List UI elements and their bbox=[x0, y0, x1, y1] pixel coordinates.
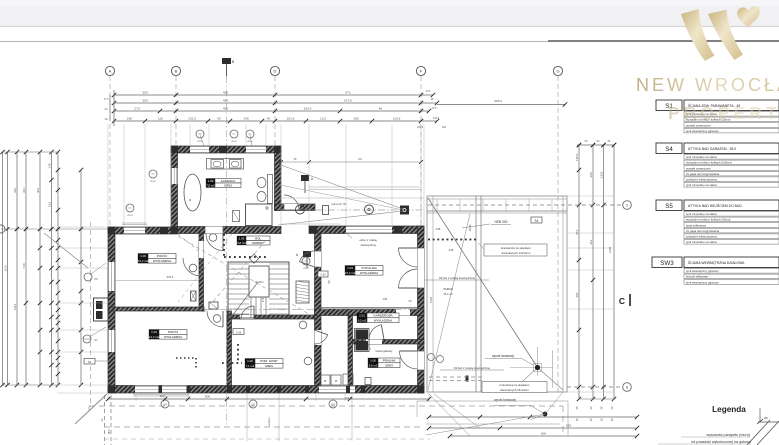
svg-text:148: 148 bbox=[47, 163, 51, 168]
radiator row bottom bbox=[320, 375, 330, 385]
svg-text:140: 140 bbox=[243, 117, 248, 121]
svg-text:GARDEROBA: GARDEROBA bbox=[373, 314, 392, 318]
svg-text:1.04: 1.04 bbox=[347, 266, 353, 270]
basin 1 bbox=[211, 160, 224, 169]
bottom dashed overhang bbox=[89, 405, 563, 407]
top dim chain 1 bbox=[114, 94, 433, 96]
door gap gosp bbox=[240, 315, 254, 319]
logo W stroke 1 bbox=[681, 9, 715, 61]
window left 2 bbox=[108, 330, 115, 352]
svg-text:tynk mineralny na siatce: tynk mineralny na siatce bbox=[686, 183, 717, 187]
svg-text:80: 80 bbox=[764, 416, 768, 420]
svg-text:tynk wewnętrzny gipsowy: tynk wewnętrzny gipsowy bbox=[686, 280, 719, 284]
svg-text:12,3 m2: 12,3 m2 bbox=[149, 335, 160, 339]
svg-text:okno z roletą: okno z roletą bbox=[359, 238, 377, 242]
door arc room106 bbox=[183, 258, 201, 276]
svg-text:300: 300 bbox=[142, 99, 147, 103]
svg-text:180: 180 bbox=[127, 117, 132, 121]
svg-text:HOL: HOL bbox=[255, 236, 262, 240]
apron outline bbox=[417, 400, 568, 402]
svg-text:WYKŁADZINA: WYKŁADZINA bbox=[164, 335, 182, 339]
door arc room103 bbox=[207, 311, 223, 327]
svg-text:1.01: 1.01 bbox=[359, 314, 365, 318]
svg-text:TARAS: TARAS bbox=[443, 287, 453, 291]
wall exterior left bbox=[108, 227, 115, 393]
svg-text:drewnianych 14x14cm: drewnianych 14x14cm bbox=[502, 251, 531, 255]
svg-text:635: 635 bbox=[566, 424, 571, 428]
wall exterior bottom bbox=[108, 386, 424, 394]
grid bubbles A B D F G bbox=[105, 66, 114, 75]
svg-text:17.5: 17.5 bbox=[426, 90, 431, 93]
svg-text:D: D bbox=[274, 69, 277, 74]
witness lines bottom bbox=[135, 393, 137, 401]
svg-text:Legenda: Legenda bbox=[712, 405, 746, 414]
svg-text:2x papa termozgrzewalna: 2x papa termozgrzewalna bbox=[686, 229, 719, 233]
room label 1.04 SYPIALNIA bbox=[345, 266, 355, 271]
vent leaders bbox=[200, 135, 204, 146]
door gap hall-right-2 bbox=[315, 330, 322, 345]
room label 1.02 POM GOSP bbox=[245, 359, 255, 364]
svg-text:krotownica ze słupkiem: krotownica ze słupkiem bbox=[500, 383, 530, 387]
wall interior hall-left bbox=[199, 233, 204, 311]
svg-text:S1: S1 bbox=[88, 360, 92, 364]
svg-text:kocioł gazowy: kocioł gazowy bbox=[376, 349, 393, 353]
svg-text:SW3: SW3 bbox=[660, 260, 674, 267]
svg-text:238: 238 bbox=[436, 227, 441, 231]
svg-text:40: 40 bbox=[267, 117, 271, 121]
wall interior rooms divider bbox=[108, 307, 204, 311]
grid bubble 2 bbox=[428, 204, 622, 206]
bathtub bbox=[184, 174, 201, 211]
wall interior gosp-left bbox=[227, 311, 232, 386]
svg-text:460: 460 bbox=[223, 99, 228, 103]
toilet bbox=[257, 178, 266, 188]
section marker A1 bbox=[301, 175, 309, 181]
terrace diagonal bbox=[428, 198, 538, 368]
svg-text:GRES: GRES bbox=[224, 183, 232, 187]
section marker B1 bbox=[222, 58, 231, 64]
svg-text:S4: S4 bbox=[665, 146, 673, 153]
left dim chains bbox=[2, 152, 4, 385]
wall interior right section divider bbox=[315, 309, 425, 316]
door arc garderoba bbox=[369, 325, 381, 339]
svg-text:238: 238 bbox=[449, 248, 454, 252]
door arc pralnia terrace bbox=[400, 351, 418, 369]
svg-text:6: 6 bbox=[626, 386, 628, 390]
svg-text:143.5: 143.5 bbox=[433, 117, 440, 120]
svg-text:PRALNIA: PRALNIA bbox=[383, 359, 396, 363]
vent circles bbox=[126, 204, 134, 212]
witness lines top bbox=[123, 124, 125, 226]
svg-text:Ø160: Ø160 bbox=[231, 141, 237, 143]
wall corner blocks bathroom bbox=[171, 146, 178, 153]
door arc terrace upper bbox=[399, 248, 418, 267]
window bottom 1 bbox=[135, 386, 187, 394]
svg-text:45x45: 45x45 bbox=[468, 224, 472, 232]
svg-text:303: 303 bbox=[575, 230, 579, 235]
svg-text:871: 871 bbox=[345, 91, 350, 95]
porch column 2 bbox=[365, 205, 374, 214]
top dim chain 4 bbox=[114, 120, 437, 122]
window circle left2 bbox=[84, 273, 92, 281]
grid axis B dashed bbox=[175, 76, 177, 148]
door gap bathroom bbox=[205, 227, 223, 234]
svg-text:PROPERTY R: PROPERTY R bbox=[668, 103, 779, 123]
window top-right bbox=[346, 226, 392, 234]
svg-text:1.09: 1.09 bbox=[208, 179, 214, 183]
s1 small box bottom bbox=[233, 329, 244, 335]
svg-text:1.02: 1.02 bbox=[247, 359, 253, 363]
witness lines left bbox=[57, 226, 108, 228]
c03 box bbox=[318, 271, 328, 277]
svg-text:tynk mineralny na siatce: tynk mineralny na siatce bbox=[686, 240, 717, 244]
terrace truss verticals bbox=[475, 196, 477, 392]
dim line bath-F bbox=[281, 161, 421, 163]
svg-text:1.05: 1.05 bbox=[239, 236, 245, 240]
radiator wall box bbox=[191, 291, 197, 301]
svg-text:ŁAZIENKA: ŁAZIENKA bbox=[221, 179, 236, 183]
svg-text:ATTYKA NAD GARAŻEM - 55.0: ATTYKA NAD GARAŻEM - 55.0 bbox=[688, 146, 736, 151]
legend S1 bbox=[656, 100, 682, 111]
door arc bathroom bbox=[206, 234, 223, 251]
svg-text:60: 60 bbox=[217, 117, 221, 121]
svg-text:17x18,2: 17x18,2 bbox=[254, 280, 264, 284]
door gap hall-left bbox=[199, 241, 204, 258]
svg-text:362: 362 bbox=[13, 188, 17, 193]
svg-text:278: 278 bbox=[261, 297, 265, 302]
svg-text:7,1 m2: 7,1 m2 bbox=[246, 364, 255, 368]
legend S5 bbox=[656, 200, 682, 211]
svg-text:12.5: 12.5 bbox=[320, 117, 326, 121]
svg-text:2: 2 bbox=[626, 204, 628, 208]
svg-text:46: 46 bbox=[379, 107, 383, 111]
svg-text:126.5: 126.5 bbox=[393, 117, 401, 121]
svg-text:7,8 m2: 7,8 m2 bbox=[206, 183, 215, 187]
window bathroom left bbox=[171, 168, 178, 184]
wall corner blocks main top bbox=[108, 227, 115, 234]
window top-left bbox=[124, 227, 145, 234]
svg-text:POM. GOSP.: POM. GOSP. bbox=[260, 359, 278, 363]
sill top-left bbox=[122, 224, 147, 226]
svg-text:1.00: 1.00 bbox=[370, 359, 376, 363]
terrace outline bbox=[427, 196, 567, 392]
sheet border line bbox=[0, 41, 548, 43]
wall bathroom top bbox=[171, 146, 281, 153]
legend S4 bbox=[656, 143, 682, 154]
svg-text:148.5: 148.5 bbox=[575, 153, 579, 161]
svg-text:C-03: C-03 bbox=[236, 331, 242, 334]
svg-text:GRES: GRES bbox=[385, 363, 393, 367]
svg-text:zewnętrzną: zewnętrzną bbox=[360, 243, 376, 247]
svg-text:343: 343 bbox=[589, 240, 593, 245]
svg-text:112: 112 bbox=[358, 158, 363, 161]
section dashdot line bbox=[118, 309, 420, 311]
svg-text:110: 110 bbox=[158, 117, 163, 121]
kratownica label 2 bbox=[482, 382, 547, 393]
room label 1.03 POKOJ bbox=[149, 330, 159, 335]
door gap right divider bbox=[396, 309, 410, 316]
section double line bbox=[309, 186, 421, 188]
svg-text:tynk wewnętrzny gipsowy: tynk wewnętrzny gipsowy bbox=[686, 269, 719, 273]
wall bathroom bottom bbox=[171, 227, 281, 234]
wall corner blocks bottom bbox=[108, 386, 115, 393]
svg-text:6,2 m2: 6,2 m2 bbox=[358, 318, 367, 322]
wall bathroom left bbox=[171, 146, 178, 234]
terrace dotted row bbox=[428, 239, 477, 241]
svg-text:Ø160: Ø160 bbox=[247, 141, 253, 143]
svg-text:363: 363 bbox=[22, 188, 26, 193]
svg-text:C: C bbox=[619, 296, 625, 306]
svg-text:126.5: 126.5 bbox=[417, 126, 424, 129]
svg-text:1.06: 1.06 bbox=[140, 254, 146, 258]
hall dashed diagonal bbox=[178, 236, 312, 316]
svg-text:PARKIET: PARKIET bbox=[252, 241, 264, 245]
svg-text:WYKŁADZINA: WYKŁADZINA bbox=[360, 271, 378, 275]
pralnia fixture bbox=[365, 378, 371, 385]
svg-text:5,8 m2: 5,8 m2 bbox=[369, 363, 378, 367]
bottom sill lines bbox=[133, 394, 189, 396]
window bathroom top 2 bbox=[246, 146, 266, 153]
svg-text:pustaki ceramiczne: pustaki ceramiczne bbox=[686, 166, 711, 170]
wall entrance recess bbox=[275, 204, 316, 211]
svg-text:S5: S5 bbox=[665, 203, 673, 210]
svg-text:styropian na kleju i kołkach (: styropian na kleju i kołkach (20cm) bbox=[686, 218, 730, 222]
svg-text:9,8 m2: 9,8 m2 bbox=[237, 241, 246, 245]
porch roof diagonals bbox=[278, 164, 403, 209]
svg-text:928.5: 928.5 bbox=[494, 99, 502, 103]
terrace bottom dashes bbox=[429, 376, 482, 378]
section line B vertical bbox=[226, 76, 228, 425]
svg-text:POKÓJ: POKÓJ bbox=[157, 253, 168, 258]
svg-text:WYKŁADZINA: WYKŁADZINA bbox=[153, 259, 171, 263]
door arc terrace lower bbox=[399, 269, 418, 288]
svg-text:wpust tarasowy: wpust tarasowy bbox=[492, 354, 514, 358]
svg-text:12.5: 12.5 bbox=[432, 107, 437, 110]
svg-text:wpust tarasowy: wpust tarasowy bbox=[494, 398, 516, 402]
svg-text:164.5: 164.5 bbox=[304, 107, 312, 111]
svg-text:S4: S4 bbox=[535, 219, 539, 223]
svg-text:303: 303 bbox=[36, 188, 40, 193]
grid axis chimney dashed bbox=[90, 222, 92, 407]
svg-text:pustaki ceramiczne: pustaki ceramiczne bbox=[686, 123, 711, 127]
door gap entrance bbox=[284, 204, 300, 211]
svg-text:1.03: 1.03 bbox=[151, 330, 157, 334]
svg-text:bloczki silikatowe: bloczki silikatowe bbox=[686, 275, 709, 279]
door gap hall-right-1 bbox=[315, 251, 322, 267]
svg-text:525.5: 525.5 bbox=[167, 275, 174, 279]
svg-text:450: 450 bbox=[223, 91, 228, 95]
radiator wall box 2 bbox=[209, 302, 218, 309]
bottom dim right 2 bbox=[429, 427, 637, 429]
left chain inner bbox=[80, 170, 82, 385]
svg-text:730: 730 bbox=[22, 263, 26, 268]
door arc sypialnia bbox=[300, 251, 315, 262]
svg-text:tynk wewnętrzny gipsowy: tynk wewnętrzny gipsowy bbox=[686, 129, 719, 133]
top chain left riser bbox=[113, 90, 115, 126]
svg-text:673.5: 673.5 bbox=[344, 99, 352, 103]
svg-text:Drzwi z roletą zewnętrzną: Drzwi z roletą zewnętrzną bbox=[454, 366, 490, 370]
window left 1 bbox=[108, 262, 115, 291]
room label 1.05 HOL bbox=[237, 236, 246, 241]
svg-text:wysokość parapetu (muru): wysokość parapetu (muru) bbox=[707, 433, 750, 437]
svg-text:polistyren ekstrudowany: polistyren ekstrudowany bbox=[686, 235, 718, 239]
door arc entrance bbox=[284, 195, 299, 210]
window circle left bbox=[83, 335, 91, 343]
svg-text:192: 192 bbox=[47, 202, 51, 207]
svg-text:18.5: 18.5 bbox=[107, 429, 111, 435]
pralnia terrace door gap bbox=[418, 351, 425, 370]
svg-text:184: 184 bbox=[383, 297, 388, 301]
wall exterior top-right bbox=[309, 226, 424, 234]
svg-text:600: 600 bbox=[160, 394, 165, 398]
legend SW3 bbox=[652, 257, 682, 268]
svg-text:SYPIALNIA: SYPIALNIA bbox=[361, 266, 377, 270]
legenda diagram bbox=[747, 420, 770, 445]
dotted kitchen corner bbox=[223, 234, 225, 257]
right dim chains bbox=[578, 145, 580, 399]
kratownica label 1 bbox=[484, 244, 547, 256]
svg-text:WYKŁADZINA: WYKŁADZINA bbox=[374, 318, 392, 322]
svg-text:160: 160 bbox=[353, 117, 358, 121]
svg-text:15,2 m2: 15,2 m2 bbox=[345, 271, 356, 275]
s4 small box bbox=[531, 217, 542, 223]
svg-text:NEW WROCŁAW: NEW WROCŁAW bbox=[636, 75, 779, 95]
window bathroom top 1 bbox=[190, 146, 209, 153]
shower bbox=[246, 204, 273, 226]
wardrobe line sypialnia bbox=[321, 307, 418, 309]
svg-text:HEB 300: HEB 300 bbox=[495, 220, 508, 224]
svg-text:G: G bbox=[556, 69, 559, 74]
svg-text:tynk mineralny na siatce: tynk mineralny na siatce bbox=[686, 155, 717, 159]
wall entrance side bbox=[275, 204, 282, 211]
svg-text:GRES: GRES bbox=[265, 364, 273, 368]
dotted line room 1.03 bbox=[176, 357, 196, 359]
circle markers gosp bbox=[299, 321, 307, 329]
dotted line gosp bbox=[237, 344, 239, 362]
svg-text:płyta żelbetowa: płyta żelbetowa bbox=[686, 223, 706, 227]
grid axis A dashed bbox=[109, 76, 111, 392]
svg-text:POKÓJ: POKÓJ bbox=[168, 329, 179, 334]
top dim chain 2 bbox=[114, 102, 437, 104]
svg-text:B: B bbox=[175, 69, 178, 74]
wall interior hall-right bbox=[315, 233, 322, 386]
room label 1.01 GARDEROBA bbox=[357, 313, 367, 318]
grid axis D dashed bbox=[274, 76, 276, 148]
svg-text:2x papa termozgrzewalna: 2x papa termozgrzewalna bbox=[686, 172, 719, 176]
wall interior under stairs bbox=[227, 315, 315, 319]
bidet bbox=[257, 192, 266, 202]
corner roof diagonal bbox=[75, 394, 107, 424]
room label 1.06 POKOJ bbox=[138, 254, 148, 259]
svg-text:Drzwi z roletą zewnętrzną: Drzwi z roletą zewnętrzną bbox=[439, 276, 475, 280]
wall exterior top-left bbox=[108, 227, 171, 234]
svg-text:270: 270 bbox=[134, 107, 139, 111]
svg-text:kratownica ze słupkiem: kratownica ze słupkiem bbox=[501, 246, 531, 250]
grid axis G dashed bbox=[557, 76, 559, 392]
shaft hatched bbox=[296, 281, 309, 303]
svg-text:17.5: 17.5 bbox=[103, 97, 109, 101]
grid axis F dashed bbox=[420, 76, 422, 394]
top dim chain 3 bbox=[114, 110, 429, 112]
window bottom 3 bbox=[319, 386, 355, 394]
svg-text:101.5: 101.5 bbox=[188, 117, 196, 121]
left corner leader bbox=[44, 233, 88, 268]
porch column anchor bbox=[400, 206, 409, 215]
room label 1.09 LAZIENKA bbox=[206, 179, 215, 184]
svg-text:1308: 1308 bbox=[608, 246, 612, 253]
door gap garderoba-pralnia bbox=[366, 340, 382, 345]
svg-text:Ø160: Ø160 bbox=[150, 181, 156, 183]
door arc corridor bbox=[315, 335, 328, 344]
left chain connector bbox=[3, 151, 59, 153]
section marker A2 bbox=[303, 251, 311, 257]
logo heart bbox=[737, 6, 760, 27]
svg-text:300: 300 bbox=[142, 91, 147, 95]
logo W stroke 2 bbox=[708, 10, 743, 61]
porch axis dashdot bbox=[278, 209, 424, 211]
door arc gosp bbox=[241, 306, 254, 319]
svg-text:Ø160: Ø160 bbox=[127, 215, 133, 217]
svg-text:1113: 1113 bbox=[13, 304, 17, 311]
svg-text:300: 300 bbox=[589, 172, 593, 177]
s1 small box left bbox=[84, 359, 95, 365]
left bubble half bbox=[0, 225, 5, 233]
right chain top connector bbox=[577, 144, 614, 146]
svg-text:1130: 1130 bbox=[429, 297, 433, 303]
top dim long 928 bbox=[437, 104, 565, 106]
svg-text:600: 600 bbox=[205, 395, 210, 399]
staircase bbox=[228, 262, 289, 318]
vanity counter bbox=[207, 159, 244, 170]
boiler stack bbox=[356, 330, 369, 340]
wall exterior right bbox=[418, 226, 425, 393]
wall interior garderoba-left bbox=[348, 316, 353, 386]
basin 2 bbox=[230, 160, 242, 169]
porch column 1 bbox=[296, 205, 305, 214]
svg-text:1116: 1116 bbox=[3, 265, 7, 272]
bottom dim right 3 bbox=[450, 435, 637, 437]
svg-text:35,0 m2: 35,0 m2 bbox=[443, 292, 453, 296]
top gray band bbox=[0, 0, 779, 27]
svg-text:C-03: C-03 bbox=[320, 274, 326, 277]
svg-text:drewnianych 14x14cm: drewnianych 14x14cm bbox=[500, 388, 529, 392]
svg-text:Ø160: Ø160 bbox=[303, 268, 309, 270]
dashed bath diagonal bbox=[178, 234, 200, 252]
svg-text:402: 402 bbox=[223, 107, 228, 111]
svg-text:suwnica: suwnica bbox=[268, 417, 271, 426]
svg-text:101.5: 101.5 bbox=[287, 117, 295, 121]
terrace end dot bbox=[535, 365, 540, 370]
grid bubble 6 bbox=[567, 386, 622, 388]
bottom leader diagonals bbox=[429, 394, 470, 436]
svg-text:15,2 m2: 15,2 m2 bbox=[138, 259, 149, 263]
svg-text:A: A bbox=[109, 69, 112, 74]
corner dashed verticals bbox=[104, 395, 106, 445]
svg-text:polistyren ekstrudowany: polistyren ekstrudowany bbox=[686, 178, 718, 182]
porch slab outline bbox=[281, 197, 424, 199]
svg-text:1433: 1433 bbox=[599, 171, 603, 178]
witness below wall bbox=[246, 393, 248, 441]
svg-text:od posadzki wykończonej na got: od posadzki wykończonej na gotowo bbox=[691, 440, 751, 444]
washing machine bbox=[233, 211, 240, 222]
window markers bottom bbox=[161, 400, 169, 408]
bottom dim chain house bbox=[108, 398, 429, 400]
wall bathroom right bbox=[275, 146, 282, 210]
svg-text:styropian na kleju i kołkach (: styropian na kleju i kołkach (2x8cm) bbox=[686, 161, 732, 165]
chimney left protrusion bbox=[94, 298, 109, 321]
svg-text:636: 636 bbox=[541, 432, 546, 436]
terrace door gap right wall bbox=[418, 248, 425, 288]
